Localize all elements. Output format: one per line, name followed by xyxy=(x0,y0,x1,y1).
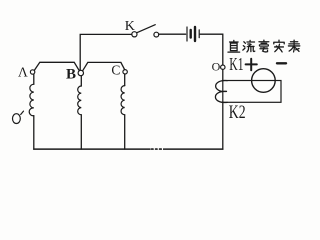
coil under C xyxy=(121,74,125,149)
coil under A xyxy=(29,74,34,149)
char an xyxy=(274,40,284,52)
phi symbol near A coil xyxy=(13,111,24,123)
bottom wire xyxy=(34,148,223,150)
switch K label xyxy=(125,19,135,34)
milliammeter body box xyxy=(223,81,281,103)
wire B up to switch xyxy=(80,34,132,70)
svg-text:Λ: Λ xyxy=(18,65,28,80)
minus sign of meter xyxy=(277,62,286,64)
svg-text:C: C xyxy=(111,63,120,78)
wire terminal O to coil xyxy=(222,69,224,80)
wire battery to right side, down to terminal O xyxy=(200,34,223,65)
char liu xyxy=(243,40,255,51)
switch K xyxy=(132,25,159,37)
terminal C xyxy=(123,70,127,74)
char biao xyxy=(288,40,299,52)
terminal B xyxy=(78,70,83,75)
terminal A xyxy=(30,70,34,74)
char zhi xyxy=(228,40,240,52)
node A label xyxy=(18,65,28,80)
wire switch to battery xyxy=(159,33,186,35)
wire A to B xyxy=(34,62,79,70)
svg-text:K2: K2 xyxy=(229,103,246,123)
milliammeter label (Chinese: DC milliammeter) xyxy=(228,40,300,52)
char hao xyxy=(259,40,269,52)
node C label xyxy=(111,63,120,78)
plus sign of meter xyxy=(246,59,257,70)
node O label xyxy=(212,59,221,73)
terminal K1 label xyxy=(229,54,243,74)
terminal O xyxy=(221,65,225,69)
node B label xyxy=(66,66,76,82)
coupling coil (secondary) on right wire xyxy=(215,80,227,102)
wire B to C xyxy=(83,62,125,70)
svg-text:O: O xyxy=(212,59,221,73)
wire coil down to bottom xyxy=(222,102,224,149)
scan artifact: faint dotted segment of bottom wire xyxy=(151,147,164,150)
coil under B xyxy=(78,76,82,149)
svg-text:K1: K1 xyxy=(229,54,243,74)
svg-text:B: B xyxy=(66,66,76,82)
milliammeter dial circle xyxy=(252,69,276,93)
battery E xyxy=(187,27,199,41)
terminal K2 label xyxy=(229,103,246,123)
